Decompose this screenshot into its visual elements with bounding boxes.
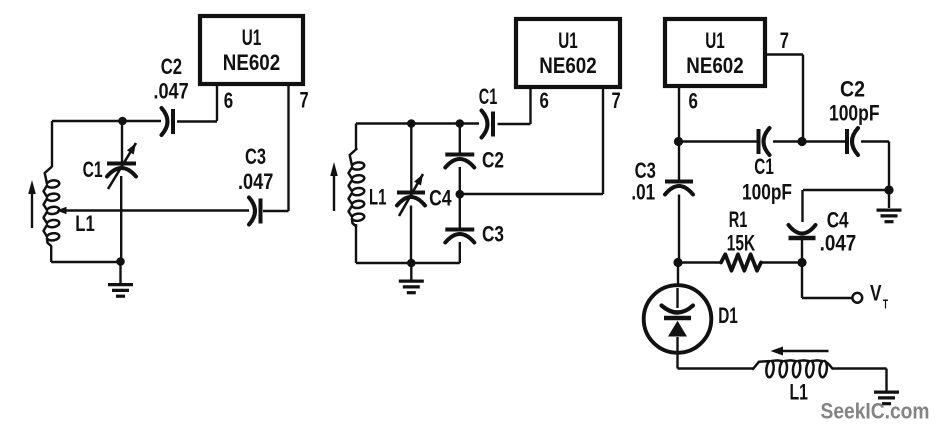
svg-text:6: 6	[224, 88, 233, 113]
svg-text:U1: U1	[705, 28, 725, 53]
svg-text:D1: D1	[718, 303, 738, 328]
svg-text:R1: R1	[729, 207, 748, 232]
svg-text:C1: C1	[479, 84, 498, 109]
svg-text:.047: .047	[820, 231, 857, 256]
svg-text:.047: .047	[153, 79, 188, 104]
svg-text:6: 6	[540, 88, 549, 113]
svg-text:NE602: NE602	[686, 53, 743, 78]
svg-text:100pF: 100pF	[829, 101, 880, 126]
svg-text:U1: U1	[242, 25, 262, 50]
svg-text:L1: L1	[790, 380, 809, 405]
svg-text:.047: .047	[238, 169, 273, 194]
svg-text:C2: C2	[482, 148, 504, 173]
svg-text:SeekIC.com: SeekIC.com	[821, 399, 930, 424]
svg-text:100pF: 100pF	[742, 180, 792, 205]
svg-text:C1: C1	[754, 154, 774, 179]
svg-text:C3: C3	[245, 144, 266, 169]
svg-text:T: T	[883, 297, 888, 312]
svg-text:7: 7	[612, 88, 621, 113]
svg-text:C2: C2	[840, 77, 865, 102]
svg-text:L1: L1	[75, 211, 95, 236]
svg-text:C3: C3	[482, 222, 504, 247]
svg-text:NE602: NE602	[539, 53, 596, 78]
svg-text:C1: C1	[83, 157, 103, 182]
svg-text:L1: L1	[369, 185, 387, 210]
svg-text:7: 7	[300, 88, 309, 113]
svg-text:V: V	[870, 281, 882, 306]
svg-text:.01: .01	[631, 180, 655, 205]
svg-text:C4: C4	[429, 185, 452, 210]
svg-text:C4: C4	[827, 207, 849, 232]
svg-text:NE602: NE602	[223, 50, 280, 75]
svg-text:C2: C2	[161, 54, 182, 79]
svg-text:15K: 15K	[727, 231, 755, 256]
svg-text:6: 6	[689, 88, 698, 113]
svg-text:7: 7	[780, 28, 789, 53]
svg-text:U1: U1	[558, 28, 578, 53]
